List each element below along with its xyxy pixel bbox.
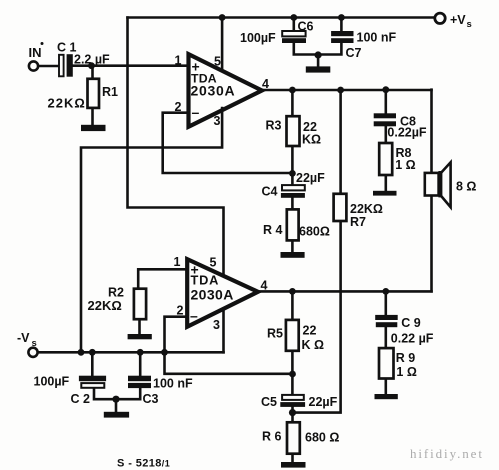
svg-text:K Ω: K Ω <box>302 338 325 352</box>
wire -Vs rail <box>38 351 224 354</box>
resistor R2 <box>134 289 146 320</box>
svg-text:8 Ω: 8 Ω <box>456 180 476 194</box>
wire R3 to C4 <box>291 146 294 185</box>
svg-text:+V: +V <box>450 13 466 27</box>
wire R2 to ground <box>138 319 141 334</box>
svg-text:4: 4 <box>262 77 269 91</box>
wire U2 output line <box>258 290 432 293</box>
svg-text:s: s <box>32 338 37 349</box>
svg-text:2: 2 <box>177 304 184 318</box>
wire C9 top stem <box>384 291 387 315</box>
resistor R5 <box>286 320 299 351</box>
node dot C6 on +Vs rail <box>290 14 297 21</box>
node dot R5 on U2 output <box>289 288 296 295</box>
wire C4 to R4 <box>291 198 294 210</box>
svg-text:C4: C4 <box>262 185 278 199</box>
resistor R7 <box>334 194 347 221</box>
resistor R8 <box>379 143 392 175</box>
ground C2/C3 <box>104 412 129 418</box>
capacitor C4 plates <box>282 185 305 190</box>
node dot C8 on U1 output <box>382 86 389 93</box>
svg-text:C 2: C 2 <box>71 392 91 406</box>
capacitor C7 plates <box>331 31 353 36</box>
node dot pin5 U1 on +Vs rail <box>219 14 226 21</box>
wire R5 to C5 <box>291 351 294 395</box>
resistor R3 <box>287 116 300 146</box>
node dot C2/C3 ground junction <box>112 396 119 403</box>
svg-text:C7: C7 <box>346 46 362 60</box>
wire pin3 U1 to -Vs rail <box>81 108 222 352</box>
node dot C3 on -Vs rail <box>137 349 144 356</box>
svg-text:100µF: 100µF <box>240 31 276 45</box>
wire C1 to pin1 U1 <box>74 64 189 67</box>
svg-text:C 9: C 9 <box>401 316 421 330</box>
node dot C5/R6 junction <box>289 409 296 416</box>
wire pin1 U2 to R2 <box>138 269 187 288</box>
wire pin5 U1 to +Vs rail <box>221 18 224 72</box>
wire C8 top stem <box>384 90 387 114</box>
resistor R6 <box>287 422 300 453</box>
node dot pin2 U2 leg on -Vs rail <box>161 349 168 356</box>
wire C7 top stem <box>340 18 343 32</box>
svg-text:2030A: 2030A <box>191 83 236 99</box>
wire speaker bottom lead <box>430 196 433 292</box>
svg-text:R7: R7 <box>350 215 366 229</box>
capacitor C2 plates <box>79 376 106 382</box>
wire C8 to R8 <box>384 126 387 143</box>
ground R8 <box>373 191 397 196</box>
node dot C9 on U2 output <box>382 288 389 295</box>
ground R4 <box>281 252 305 258</box>
svg-text:5: 5 <box>214 55 221 69</box>
svg-text:R1: R1 <box>102 85 118 99</box>
svg-text:–: – <box>192 104 200 120</box>
svg-text:680 Ω: 680 Ω <box>305 431 339 445</box>
svg-text:5: 5 <box>210 256 217 270</box>
wire ground stem of C6/C7 <box>317 55 320 68</box>
wire pin2 U1 feedback to R3/C4 junction <box>163 113 293 173</box>
wire R7 top stem <box>339 90 342 194</box>
wire C9 to R9 <box>384 327 387 348</box>
svg-text:100 nF: 100 nF <box>153 377 193 391</box>
svg-text:s: s <box>467 19 472 30</box>
wire C7 bottom to ground node <box>318 43 341 55</box>
svg-text:IN: IN <box>29 45 42 60</box>
svg-text:hifidiy.net: hifidiy.net <box>410 446 484 461</box>
wire C2 bottom to ground node <box>94 388 116 399</box>
wire R1 bottom stem <box>91 108 94 125</box>
capacitor C8 plates <box>374 113 396 118</box>
svg-text:KΩ: KΩ <box>302 133 321 147</box>
wire R9 to ground <box>384 379 387 395</box>
terminal +Vs <box>435 13 445 23</box>
ground C6/C7 <box>306 66 331 72</box>
svg-text:0.22 µF: 0.22 µF <box>391 331 434 345</box>
svg-text:–: – <box>190 308 198 324</box>
svg-text:R5: R5 <box>267 327 283 341</box>
wire C2 top stem <box>91 352 94 375</box>
terminal IN <box>29 61 38 70</box>
resistor R4 <box>287 209 299 240</box>
svg-text:1 Ω: 1 Ω <box>395 158 415 172</box>
wire pin3 U2 to -Vs rail <box>222 309 225 352</box>
svg-text:3: 3 <box>214 114 221 128</box>
node dot C2 on -Vs rail <box>89 349 96 356</box>
node dot feedback R3/C4 junction <box>289 170 296 177</box>
wire R8 to ground <box>384 175 387 192</box>
svg-text:0.22µF: 0.22µF <box>387 126 427 140</box>
svg-text:100µF: 100µF <box>34 375 70 389</box>
svg-text:R 4: R 4 <box>263 223 283 237</box>
svg-text:R 9: R 9 <box>396 351 416 365</box>
svg-text:22KΩ: 22KΩ <box>48 96 86 111</box>
svg-text:C5: C5 <box>261 395 277 409</box>
terminal -Vs <box>28 348 37 357</box>
wire left vertical from +Vs rail to pin5 of U2 <box>128 18 224 275</box>
svg-text:4: 4 <box>261 279 268 293</box>
wire U1 output line <box>262 89 432 92</box>
ground R2 <box>128 334 152 339</box>
svg-text:S - 5218/1: S - 5218/1 <box>117 458 170 470</box>
node dot C7 on +Vs rail <box>338 14 345 21</box>
svg-text:1: 1 <box>174 255 181 269</box>
wire R5 top stem <box>291 291 294 320</box>
svg-text:22KΩ: 22KΩ <box>88 298 122 313</box>
capacitor C1 plates <box>59 55 64 77</box>
node dot C6/C7 ground junction <box>315 51 322 58</box>
node dot R3 on U1 output <box>289 87 296 94</box>
svg-text:2.2 µF: 2.2 µF <box>74 53 110 67</box>
svg-text:R 6: R 6 <box>262 430 282 444</box>
wire R7 bottom to C5/R6 junction <box>293 221 341 413</box>
ground R6 <box>281 462 306 468</box>
op-amp U1 TDA2030A triangle <box>189 54 262 127</box>
ground R9 <box>375 394 398 399</box>
wire C3 top stem <box>139 352 142 375</box>
dot above IN <box>41 42 44 45</box>
svg-text:-V: -V <box>17 331 30 345</box>
wire R3 top stem <box>291 90 294 116</box>
svg-text:22: 22 <box>303 324 317 338</box>
resistor R9 <box>379 348 394 378</box>
wire C3 bottom to ground node <box>116 388 140 399</box>
svg-text:1: 1 <box>175 54 182 68</box>
svg-text:TDA: TDA <box>191 273 220 288</box>
wire +Vs top rail <box>128 16 435 19</box>
capacitor C5 plates <box>282 395 304 400</box>
op-amp U2 TDA2030A triangle <box>187 259 258 327</box>
speaker 8 ohm <box>425 162 451 207</box>
node dot R7 on U1 output <box>337 87 344 94</box>
svg-text:22KΩ: 22KΩ <box>350 202 383 216</box>
wire speaker top lead <box>430 90 433 173</box>
svg-text:1 Ω: 1 Ω <box>396 365 416 379</box>
wire R1 top stem <box>91 66 94 79</box>
wire R4 to ground <box>291 240 294 253</box>
node dot left line on -Vs rail <box>78 349 85 356</box>
wire C6 bottom to ground node <box>294 43 318 55</box>
svg-text:C6: C6 <box>298 20 314 34</box>
svg-text:22µF: 22µF <box>296 171 325 185</box>
svg-text:100 nF: 100 nF <box>357 31 397 45</box>
node dot R5/C5 feedback junction <box>289 371 296 378</box>
capacitor C3 plates <box>128 376 151 382</box>
wire ground stem of C2/C3 <box>115 399 118 412</box>
wire R6 to ground <box>291 454 294 463</box>
ground R1 <box>81 125 106 131</box>
capacitor C6 plates <box>282 31 305 36</box>
wire C5 to R6 <box>291 407 294 422</box>
wire input terminal to C1 <box>38 65 58 68</box>
node dot C1/R1 junction <box>88 62 95 69</box>
resistor R1 <box>88 79 100 108</box>
capacitor C9 plates <box>375 315 398 320</box>
svg-text:22µF: 22µF <box>309 395 338 409</box>
svg-text:2030A: 2030A <box>191 287 234 303</box>
svg-text:2: 2 <box>175 100 182 114</box>
svg-text:680Ω: 680Ω <box>299 225 330 239</box>
wire C6 top stem <box>292 18 295 32</box>
svg-text:C3: C3 <box>143 392 159 406</box>
wire pin2 U2 to R5/C5 junction <box>165 317 293 374</box>
svg-text:R3: R3 <box>266 119 282 133</box>
svg-text:3: 3 <box>213 318 220 332</box>
